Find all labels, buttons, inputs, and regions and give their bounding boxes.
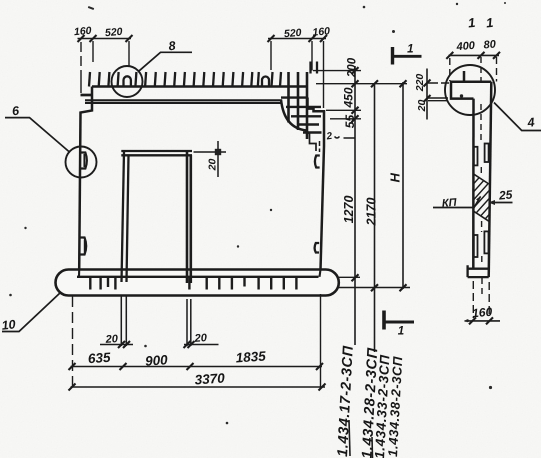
door opening left jamb bbox=[122, 152, 129, 283]
rebar ticks above band bbox=[89, 72, 281, 87]
MAIN FRONT VIEW bbox=[56, 62, 340, 296]
right edge embedded part lower bbox=[315, 243, 320, 253]
door opening top bbox=[121, 151, 192, 155]
svg-text:80: 80 bbox=[483, 38, 497, 51]
bottom foot bbox=[468, 265, 489, 277]
right chain ticks bbox=[352, 67, 359, 281]
bottom 20 dims bbox=[100, 344, 219, 346]
bottom section mark bbox=[382, 311, 386, 330]
SECTION VIEW 1-1 bbox=[445, 15, 495, 295]
section bottom dim 160 bbox=[473, 281, 489, 318]
detail circle 6 bbox=[66, 147, 97, 178]
top-right corner concave curve bbox=[281, 100, 307, 131]
svg-text:25: 25 bbox=[497, 187, 513, 202]
flange top tick bbox=[463, 71, 466, 82]
section left dim 220/20 bbox=[426, 69, 428, 120]
corner grid rungs bbox=[281, 98, 322, 133]
svg-text:160: 160 bbox=[73, 25, 92, 38]
section dim 400/80 line bbox=[449, 54, 500, 56]
top band bottom double line bbox=[85, 100, 282, 103]
svg-text:635: 635 bbox=[87, 350, 111, 367]
left edge embedded part lower bbox=[80, 238, 86, 255]
left edge embedded part upper (detail 6) bbox=[81, 153, 87, 169]
right edge with steps bbox=[308, 98, 325, 270]
svg-text:2170: 2170 bbox=[365, 198, 379, 227]
left edge with step bbox=[79, 87, 92, 270]
svg-text:1: 1 bbox=[407, 44, 413, 56]
flange dot bbox=[460, 94, 463, 97]
top-left dim ticks bbox=[78, 35, 133, 42]
corner grid vertical bars bbox=[289, 72, 308, 139]
svg-text:55: 55 bbox=[343, 115, 357, 129]
svg-text:400: 400 bbox=[455, 40, 476, 54]
bottom dim row2 line 3370 bbox=[71, 386, 326, 388]
vertical line 2170 bbox=[374, 84, 376, 352]
door jamb extensions bbox=[121, 296, 191, 347]
svg-text:4: 4 bbox=[526, 115, 535, 130]
top-right dim line 520/160 bbox=[268, 38, 326, 40]
rebar ticks inside oval right group bbox=[189, 277, 296, 290]
panel bottom edge line inside oval bbox=[77, 276, 319, 278]
lifting loop right bbox=[262, 77, 269, 88]
svg-text:900: 900 bbox=[145, 352, 169, 369]
svg-text:20: 20 bbox=[416, 100, 428, 113]
svg-text:1835: 1835 bbox=[235, 348, 266, 365]
ROTATED SERIES TEXT bbox=[335, 345, 405, 458]
bottom dim row1 line bbox=[71, 366, 323, 368]
bottom oval (stadium bar) bbox=[56, 270, 339, 296]
top-right extension lines bbox=[271, 41, 324, 108]
embedded plate rects on stem bbox=[474, 144, 489, 258]
bottom extensions from oval bbox=[339, 277, 410, 287]
svg-text:160: 160 bbox=[312, 25, 331, 38]
svg-text:20: 20 bbox=[104, 333, 119, 346]
svg-text:200: 200 bbox=[347, 57, 359, 78]
lifting loop left (detail 8) bbox=[124, 76, 131, 87]
400/80 extensions bbox=[450, 57, 497, 82]
svg-text:Н: Н bbox=[388, 172, 403, 182]
bottom extension verticals bbox=[72, 296, 74, 389]
small dashes below corner bbox=[319, 141, 321, 152]
door top 20 dim bbox=[194, 151, 227, 153]
corner inner step bbox=[307, 131, 317, 152]
stem center dashed axis bbox=[481, 57, 482, 295]
underline segment 1 bbox=[349, 420, 350, 456]
keramsit hatch band boundaries bbox=[473, 174, 489, 221]
svg-text:3370: 3370 bbox=[194, 370, 225, 387]
top-left dim line 160/520 bbox=[78, 38, 132, 40]
svg-text:520: 520 bbox=[283, 27, 302, 40]
right chain vertical dim line bbox=[354, 66, 356, 345]
right edge embedded part upper bbox=[315, 156, 320, 168]
svg-text:20: 20 bbox=[193, 332, 208, 345]
LEADERS bbox=[1, 39, 541, 333]
detail circle 4 bbox=[445, 65, 495, 115]
top-left extension lines bbox=[81, 41, 129, 93]
flange outline bbox=[451, 82, 491, 99]
svg-text:160: 160 bbox=[472, 305, 493, 321]
svg-text:1270: 1270 bbox=[342, 196, 356, 224]
vertical line H bbox=[402, 82, 404, 289]
svg-text:450: 450 bbox=[342, 87, 356, 108]
svg-text:1: 1 bbox=[398, 326, 404, 338]
stem right edge bbox=[489, 82, 492, 277]
rebar ticks inside oval left group bbox=[90, 277, 115, 290]
svg-text:10: 10 bbox=[1, 317, 16, 332]
ticks on 2170 and H lines bbox=[371, 80, 407, 291]
underline segment 2 bbox=[371, 437, 374, 458]
door opening right jamb bbox=[187, 152, 191, 284]
detail circle 8 bbox=[112, 66, 143, 97]
left edge drop into oval bbox=[79, 270, 321, 277]
chain extension lines from corner bbox=[313, 71, 407, 138]
svg-text:220: 220 bbox=[414, 74, 426, 93]
svg-text:520: 520 bbox=[104, 26, 123, 39]
stem left edge bbox=[472, 99, 475, 269]
top-right dim ticks bbox=[268, 35, 328, 42]
left stub of band bbox=[81, 94, 93, 97]
top band top line bbox=[92, 85, 308, 88]
top section mark bbox=[391, 47, 394, 65]
corner protruding bar ticks bbox=[311, 62, 318, 74]
svg-text:20: 20 bbox=[207, 159, 219, 172]
DIMENSIONS bbox=[69, 25, 501, 391]
